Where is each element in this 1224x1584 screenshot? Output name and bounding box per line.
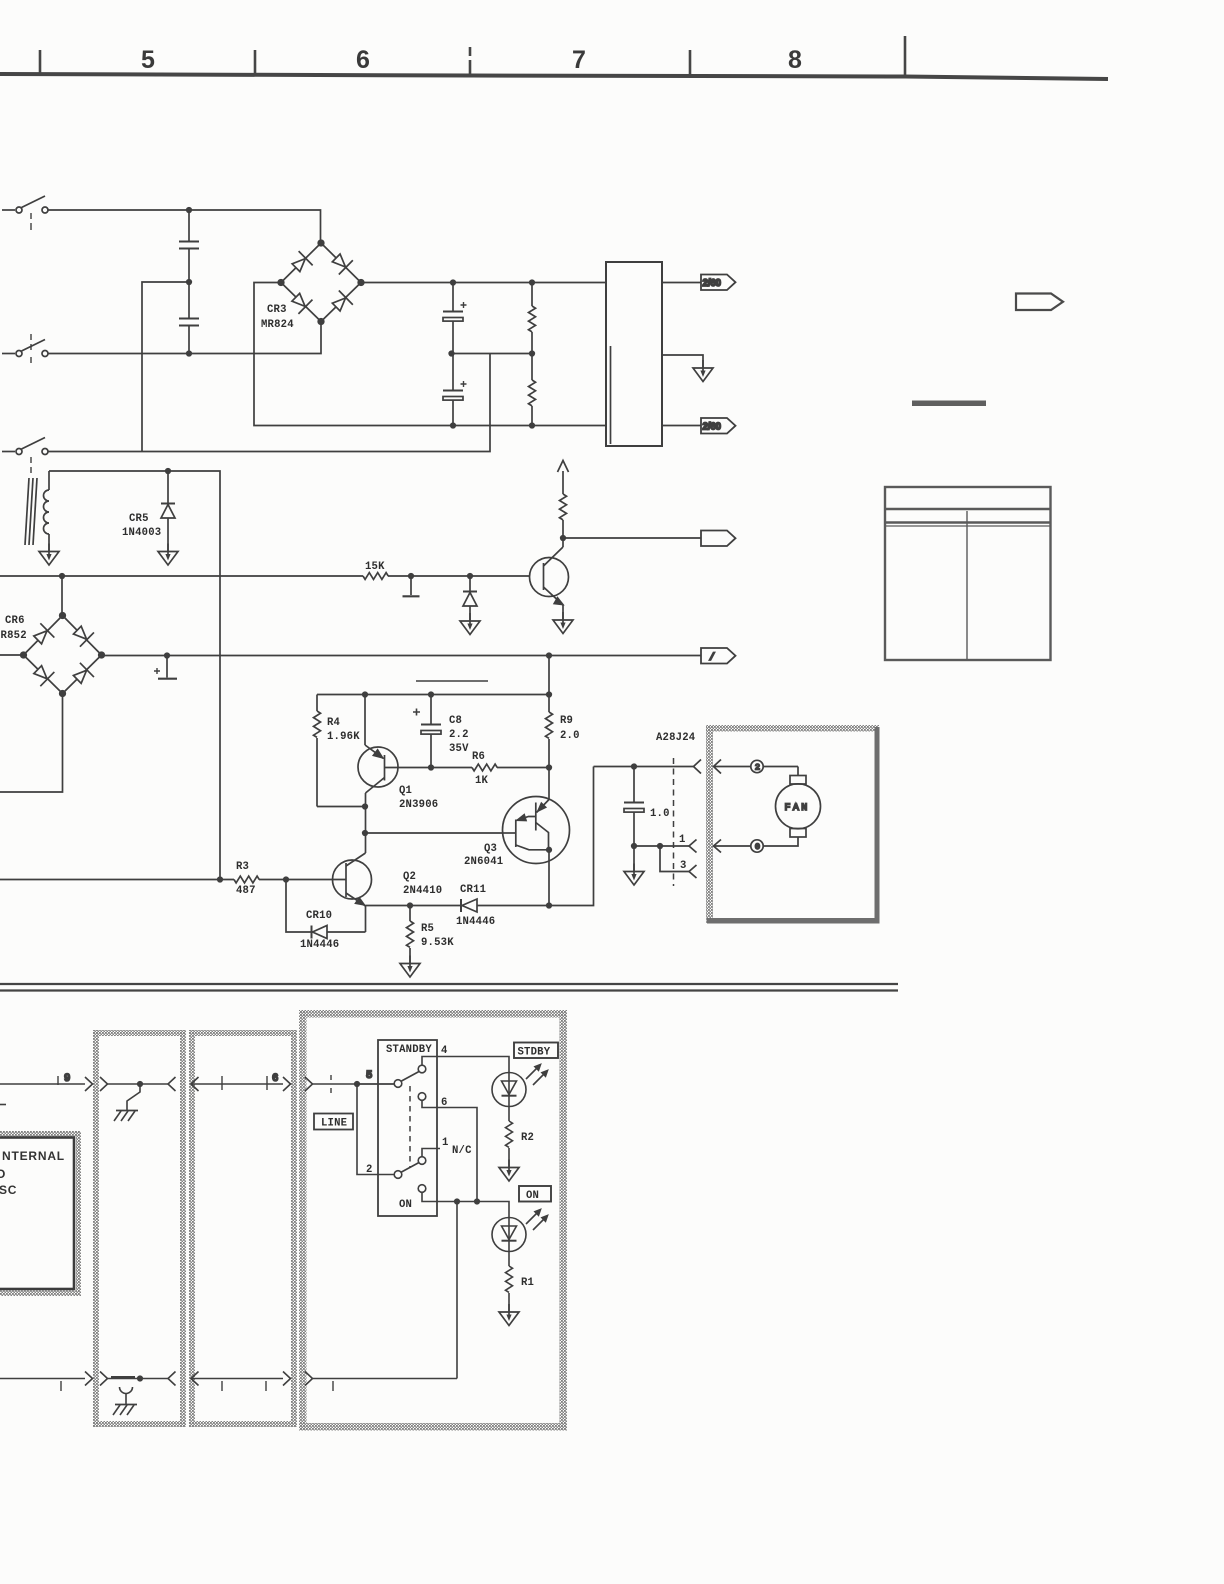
wire Q1 base to R6 (385, 767, 473, 769)
svg-text:9: 9 (64, 1073, 71, 1085)
ground under CR5 (158, 544, 178, 566)
wire row1 (48, 210, 321, 240)
shield box 3 border (299, 1010, 567, 1431)
wire Q top rail (317, 694, 549, 696)
wire pin1 (634, 845, 689, 847)
chassis ground box1 top (114, 1084, 140, 1121)
resistor R6 (472, 764, 497, 771)
wire top of winding (49, 471, 220, 880)
junction dots top section (187, 208, 192, 213)
switch linkage dashed (409, 1086, 411, 1168)
ruler tick 4 (689, 50, 692, 75)
junction dots switch (455, 1199, 460, 1204)
ground under R5 (400, 956, 420, 978)
svg-text:NTERNAL: NTERNAL (2, 1149, 65, 1163)
connector chevron pin2 (694, 760, 702, 774)
fan wire pin2 with arrow (714, 760, 799, 776)
capacitor C8 (413, 695, 441, 768)
wire CR6 bottom return (0, 694, 63, 793)
wire to contact 2 (357, 1084, 394, 1175)
transistor Q3 darlington 2N6041 (503, 768, 570, 906)
wire Y1 (0, 575, 363, 577)
switch S1b (2, 334, 48, 363)
svg-text:R5: R5 (421, 923, 434, 935)
capacitor C3 polarized (443, 283, 467, 354)
svg-text:4: 4 (441, 1045, 448, 1057)
wire Q4 collector out (563, 537, 701, 539)
wire CR3 minus to lower output (254, 283, 606, 426)
ground under R1 (499, 1304, 519, 1326)
svg-text:1.0: 1.0 (650, 808, 670, 820)
title table (885, 487, 1051, 660)
svg-text:R4: R4 (327, 717, 341, 729)
LED ON (492, 1210, 548, 1252)
ground under winding (39, 544, 59, 566)
section separator double line (0, 984, 898, 991)
junction dots mid (166, 469, 171, 474)
svg-text:R9: R9 (560, 715, 573, 727)
svg-text:6: 6 (272, 1073, 279, 1085)
wire out lower (662, 425, 701, 427)
fan box shaded border (706, 725, 880, 924)
ruler tick 1 (39, 50, 42, 73)
svg-text:STANDBY: STANDBY (386, 1044, 432, 1056)
svg-text:N/C: N/C (452, 1145, 472, 1157)
left edge stub (0, 1104, 6, 1106)
wire Y2 (102, 655, 702, 657)
svg-text:1N4446: 1N4446 (300, 939, 339, 951)
transistor Q1 PNP (358, 695, 398, 854)
ground under diode (460, 613, 480, 635)
resistor above Q4 (560, 471, 567, 538)
svg-text:2.0: 2.0 (560, 730, 580, 742)
shield box 1 border (93, 1030, 186, 1427)
resistor RB (529, 354, 536, 426)
transistor Q4 (530, 538, 569, 620)
diode CR10 (286, 880, 366, 939)
connector chevron pin3 (689, 865, 697, 878)
ground under R2 (499, 1160, 519, 1182)
resistor 15K (363, 573, 388, 580)
wire bottom interconnect row (0, 1372, 457, 1392)
svg-text:Q3: Q3 (484, 843, 497, 855)
resistor R9 (546, 710, 553, 768)
svg-text:A28J24: A28J24 (656, 732, 696, 744)
fan wire pin0 with arrow (714, 837, 799, 853)
svg-text:Q1: Q1 (399, 785, 412, 797)
flag 2/60 lower (701, 418, 736, 434)
pin number circle 0 (751, 840, 763, 852)
svg-text:487: 487 (236, 885, 256, 897)
riser to bottom row (456, 1202, 458, 1379)
svg-text:3: 3 (680, 860, 687, 872)
svg-text:1: 1 (442, 1137, 449, 1149)
svg-text:6: 6 (356, 46, 370, 74)
capacitor 1.0 (624, 767, 644, 872)
wire CR11 to riser (549, 767, 594, 906)
svg-text:1K: 1K (475, 775, 489, 787)
svg-text:1: 1 (679, 834, 686, 846)
ground (693, 360, 713, 382)
bar ground (403, 576, 420, 596)
wire R3 row (0, 879, 234, 881)
ruler tick 3 (broken) (469, 47, 472, 56)
bridge rectifier CR3 (278, 240, 364, 324)
cap plus bar (154, 656, 177, 679)
svg-text:0: 0 (755, 842, 760, 852)
flag 2/60 upper (701, 275, 736, 291)
svg-text:5: 5 (141, 46, 155, 74)
dark revision bar (912, 401, 986, 407)
contact 4 wire to STDBY led (422, 1057, 509, 1073)
regulator box U1 (606, 262, 662, 446)
empty flag (701, 531, 736, 547)
shield cap box1 bottom (113, 1387, 137, 1415)
resistor R3 (234, 876, 259, 883)
svg-text:/: / (709, 652, 715, 664)
svg-text:2N6041: 2N6041 (464, 856, 503, 868)
wire to row3 riser (142, 282, 189, 452)
transformer winding L1 (44, 471, 50, 552)
resistor R4 (314, 695, 321, 807)
svg-text:2/60: 2/60 (703, 421, 722, 432)
diode CR11 (461, 899, 549, 912)
svg-text:2N3906: 2N3906 (399, 799, 438, 811)
transformer core (25, 478, 37, 545)
ruler tick 2 (254, 50, 257, 74)
resistor R1 (506, 1252, 513, 1312)
svg-text:ON: ON (526, 1190, 539, 1202)
junction dots interconnect (138, 1082, 143, 1087)
svg-text:8: 8 (788, 46, 802, 74)
svg-text:C8: C8 (449, 715, 462, 727)
svg-text:R2: R2 (521, 1132, 534, 1144)
svg-text:MR824: MR824 (261, 319, 294, 331)
svg-text:R1: R1 (521, 1277, 534, 1289)
fan motor (776, 776, 821, 838)
wire fan supply (594, 766, 695, 768)
svg-text:6: 6 (441, 1097, 448, 1109)
label ON boxed (519, 1186, 551, 1202)
wire Q1/Q2 node to Q3 base (365, 832, 503, 834)
svg-text:O: O (0, 1167, 5, 1181)
wire CR3 plus output (361, 282, 606, 284)
switch pole B (394, 1157, 426, 1193)
wire row3 (48, 354, 490, 452)
wire mid segment (452, 353, 533, 355)
wire to ground from box (662, 355, 703, 368)
svg-text:MR852: MR852 (0, 630, 27, 642)
connector chevron pin1 (689, 840, 697, 853)
contact 6 wire (422, 1101, 477, 1202)
shield box 2 border (189, 1030, 297, 1427)
junction dots fan (632, 764, 637, 769)
svg-text:5: 5 (366, 1070, 373, 1082)
diode CR5 (161, 471, 175, 552)
svg-text:15K: 15K (365, 561, 385, 573)
svg-text:2N4410: 2N4410 (403, 885, 442, 897)
svg-text:2/60: 2/60 (703, 278, 722, 289)
svg-text:STDBY: STDBY (518, 1047, 551, 1059)
ground under cap (624, 864, 644, 886)
border ruler line (0, 74, 1108, 79)
capacitor C2 (179, 282, 199, 354)
wire R4 to Q1 emitter (317, 806, 365, 808)
svg-text:CR10: CR10 (306, 910, 332, 922)
capacitor C4 polarized (443, 354, 467, 426)
svg-text:1.96K: 1.96K (327, 731, 360, 743)
lone overline (416, 680, 488, 682)
svg-text:CR6: CR6 (5, 615, 25, 627)
svg-text:FAN: FAN (785, 803, 810, 814)
wire pin3 (660, 846, 689, 872)
junction dots Q section (363, 692, 368, 697)
svg-text:2.2: 2.2 (449, 729, 469, 741)
resistor RA (529, 283, 536, 354)
svg-text:CR5: CR5 (129, 513, 149, 525)
supply arrow (558, 461, 569, 473)
wire row2 (48, 322, 321, 354)
LED STDBY (492, 1065, 548, 1107)
svg-text:LINE: LINE (321, 1118, 347, 1130)
svg-text:SC: SC (0, 1183, 17, 1197)
svg-text:CR11: CR11 (460, 884, 486, 896)
svg-text:R6: R6 (472, 751, 485, 763)
wire top interconnect row (0, 1075, 394, 1093)
pin number circle 2 (751, 760, 763, 772)
resistor R5 (407, 906, 414, 964)
contact 1 N/C stub (422, 1149, 440, 1157)
transistor Q2 NPN (333, 853, 372, 932)
svg-text:35V: 35V (449, 743, 469, 755)
resistor R2 (506, 1107, 513, 1168)
svg-text:2: 2 (755, 763, 760, 773)
svg-text:2: 2 (366, 1164, 373, 1176)
label STDBY boxed (514, 1043, 558, 1059)
power switch box (378, 1040, 437, 1216)
svg-text:CR3: CR3 (267, 304, 287, 316)
switch S1c (2, 438, 48, 474)
bridge rectifier CR6 (21, 576, 105, 696)
svg-text:9.53K: 9.53K (421, 937, 454, 949)
svg-text:Q2: Q2 (403, 871, 416, 883)
wire CR6 left (0, 654, 24, 656)
svg-text:R3: R3 (236, 861, 249, 873)
svg-text:1N4446: 1N4446 (456, 916, 495, 928)
big empty flag (1016, 294, 1063, 311)
diode to ground (463, 576, 477, 621)
contact 3 wire to ON led (422, 1193, 509, 1218)
vertical bus x549 (548, 656, 550, 711)
capacitor C1 (179, 210, 199, 282)
internal osc box (0, 1131, 81, 1296)
svg-text:7: 7 (572, 46, 586, 74)
wire Q2 emitter row (366, 905, 462, 907)
ruler tick 5 (904, 36, 907, 76)
label LINE boxed (314, 1114, 353, 1130)
wire into switch contact 5 (357, 1083, 394, 1085)
switch pole A (394, 1065, 426, 1100)
ground under Q4 emitter (553, 612, 573, 634)
svg-text:1N4003: 1N4003 (122, 527, 161, 539)
svg-text:ON: ON (399, 1199, 412, 1211)
dashed connector boundary (673, 758, 675, 886)
switch S1a (2, 196, 48, 230)
flag slash (701, 648, 736, 664)
wire out upper (662, 282, 701, 284)
